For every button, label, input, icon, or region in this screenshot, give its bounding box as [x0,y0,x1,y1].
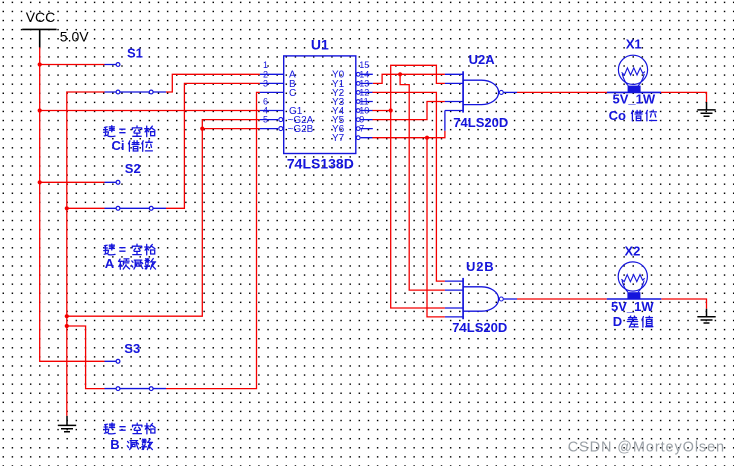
wire VCC to S1 throw1 [40,64,105,66]
wire X2 to ground [661,299,706,309]
label S2: key = space / A minuend [104,243,156,271]
svg-text:X1: X1 [626,36,642,51]
svg-text:5: 5 [263,115,268,125]
junction VCC/S1 [38,62,42,66]
wire ~G2A ~G2B chain to ground [67,120,260,317]
svg-text:74LS138D: 74LS138D [287,156,354,172]
ground (right of X2) [697,309,715,323]
junction GND/S3 [65,324,69,328]
svg-text:S2: S2 [125,161,141,176]
U1 pin names [288,70,345,144]
wire Y4 stub [372,110,390,112]
junction Y4 [389,108,393,112]
U1 left pin stubs A B C G1 [260,74,284,110]
wire VCC to U1 G1 [40,110,260,112]
wire Y7 branch to U2B in4 [427,138,445,317]
svg-text:Ci: Ci [112,138,125,153]
power source VCC 5.0V [22,29,56,47]
svg-text:=: = [119,422,126,436]
label X2: D difference [613,314,653,329]
wire ground chain (S1 pole to GND) [67,92,105,416]
svg-text:5V_1W: 5V_1W [613,92,656,107]
wire S3 pole feeder [67,326,105,389]
U1 pin numbers [263,60,369,133]
decoder U1 74LS138D [260,37,373,172]
junction VCC/G1 [38,108,42,112]
svg-text:74LS20D: 74LS20D [453,115,508,130]
U1 pin ~G2B stub [260,128,278,130]
wire Y1 to U2A in1 [373,74,445,83]
U1 right pin stubs Y0-Y7 with bubbles [356,72,360,139]
label S3: key = space / B subtrahend [104,422,155,452]
svg-text:A: A [105,256,115,271]
switch S3 [105,341,167,391]
svg-text:U1: U1 [311,37,329,53]
wire Y2 to U2B in1 [372,92,445,281]
svg-text:3: 3 [263,78,268,88]
svg-text:S3: S3 [124,341,140,356]
wire S3 common to U1 pin C [166,92,260,388]
junction VCC/S2 [38,180,42,184]
lamp X2 5V 1W [607,243,662,314]
wire S1 common to U1 pin A [166,74,260,92]
svg-text:=: = [119,125,126,139]
svg-text:C: C [289,88,296,99]
lamp X1 5V 1W [607,36,661,106]
svg-text:S1: S1 [127,46,143,61]
wire VCC to S2 throw1 [40,181,105,183]
svg-text:5V_1W: 5V_1W [611,299,654,314]
svg-text:=: = [119,243,126,257]
wire Y7 to U2A in4 [372,131,445,138]
wire VCC rail (to S3 row1) [40,47,105,361]
svg-text:U2A: U2A [469,52,496,67]
svg-text:X2: X2 [625,243,641,258]
wire U2A out to lamp X1 [517,91,607,93]
svg-text:CSDN @MorteyOlsen: CSDN @MorteyOlsen [568,440,725,456]
NAND gate U2B 74LS20D [445,259,517,335]
svg-text:D: D [613,314,622,329]
svg-text:5.0V: 5.0V [60,29,89,45]
wire Y4 net to U2A in2 and U2B in3 [391,65,445,308]
svg-text:U2B: U2B [466,259,494,274]
svg-text:7: 7 [359,124,364,134]
wire Y1 branch to U2B in2 [400,74,445,290]
wire S2 common to U1 pin B [166,83,260,208]
junction GND/S2 [65,206,69,210]
NAND gate U2A 74LS20D [445,52,517,131]
switch S1 [105,46,167,94]
svg-text:Co: Co [609,108,626,123]
junction GND/G2chain [65,314,69,318]
wire X1 to ground [661,92,707,102]
wire Y5 to U2A in3 [372,102,445,120]
junction Y7 branch [425,136,429,140]
svg-text:VCC: VCC [26,9,56,25]
svg-text:B: B [110,437,119,452]
svg-text:Y7: Y7 [332,133,345,144]
label X1: Co borrow [609,108,657,123]
svg-text:~G2B: ~G2B [288,124,314,135]
wire ~G2B to chain [202,128,260,130]
junction G2 chain [200,127,204,131]
junction Y1 branch [398,72,402,76]
U1 pin ~G2A stub [260,119,278,121]
wire U2B out to lamp X2 [517,298,607,300]
label S1: key = space / Ci borrow [104,125,155,154]
switch S2 [105,161,167,210]
ground (right of X1) [697,102,715,116]
ground (bottom, switch chain) [58,416,76,432]
wire S2 pole branch [67,207,105,209]
svg-text:74LS20D: 74LS20D [452,320,507,335]
